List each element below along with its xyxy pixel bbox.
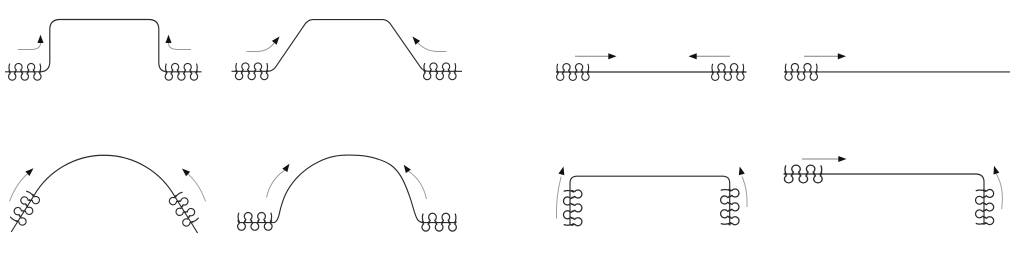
wire: panel4 long horizontal line — [784, 71, 1010, 73]
coil: panel5 right diagonal — [168, 191, 199, 227]
coil: panel4 left — [785, 63, 818, 80]
wire: panel7 flat top with corners — [570, 176, 730, 225]
arrow: panel7 left up — [556, 177, 561, 219]
arrow: panel2 left, curving up-right — [247, 43, 275, 52]
arrow: panel7 right up — [742, 177, 747, 208]
wire: panel3 horizontal line — [556, 71, 747, 73]
coil: panel8 right vertical — [976, 190, 994, 225]
arrow: panel8 curved up at right — [996, 174, 1002, 209]
coil: panel6 right — [422, 213, 456, 231]
coil: panel8 left — [784, 165, 822, 183]
wire: panel2 trapezoid outline — [232, 20, 463, 72]
wire: panel5 arc — [34, 155, 175, 196]
arrow: panel5 right curved — [188, 174, 206, 202]
wire: panel1 flat-top pulse outline — [5, 20, 202, 72]
wire: panel5 right coil axis — [175, 197, 198, 234]
coil: panel3 right — [712, 64, 745, 81]
arrow: panel2 right, curving up-left — [418, 43, 447, 52]
coil: panel5 left diagonal — [9, 190, 40, 226]
arrow: panel6 right curved — [408, 171, 426, 199]
coil: panel3 left — [557, 64, 590, 81]
arrow: panel3 rightward — [575, 55, 609, 57]
arrow: panel1 right, curving up — [169, 43, 192, 50]
wire: panel5 left coil axis — [11, 196, 34, 233]
arrow: panel5 left curved — [10, 174, 28, 202]
coil: panel2 left end — [235, 63, 268, 80]
coil: panel7 right vertical — [721, 189, 739, 225]
arrow: panel3 leftward — [696, 55, 730, 57]
arrow: panel1 left, curving up — [18, 43, 41, 50]
wire: panel8 line with corner down — [784, 174, 985, 225]
wire: panel6 dome outline — [240, 155, 457, 223]
arrow: panel6 left curved — [267, 170, 285, 197]
coil: panel6 left — [238, 212, 272, 230]
coil: panel7 left vertical — [563, 190, 581, 226]
arrow: panel8 straight right — [802, 158, 839, 160]
coil: panel1 right end — [165, 63, 198, 80]
arrow: panel4 rightward — [804, 55, 838, 57]
coil: panel2 right end — [424, 63, 457, 80]
coil: panel1 left end — [9, 63, 42, 80]
